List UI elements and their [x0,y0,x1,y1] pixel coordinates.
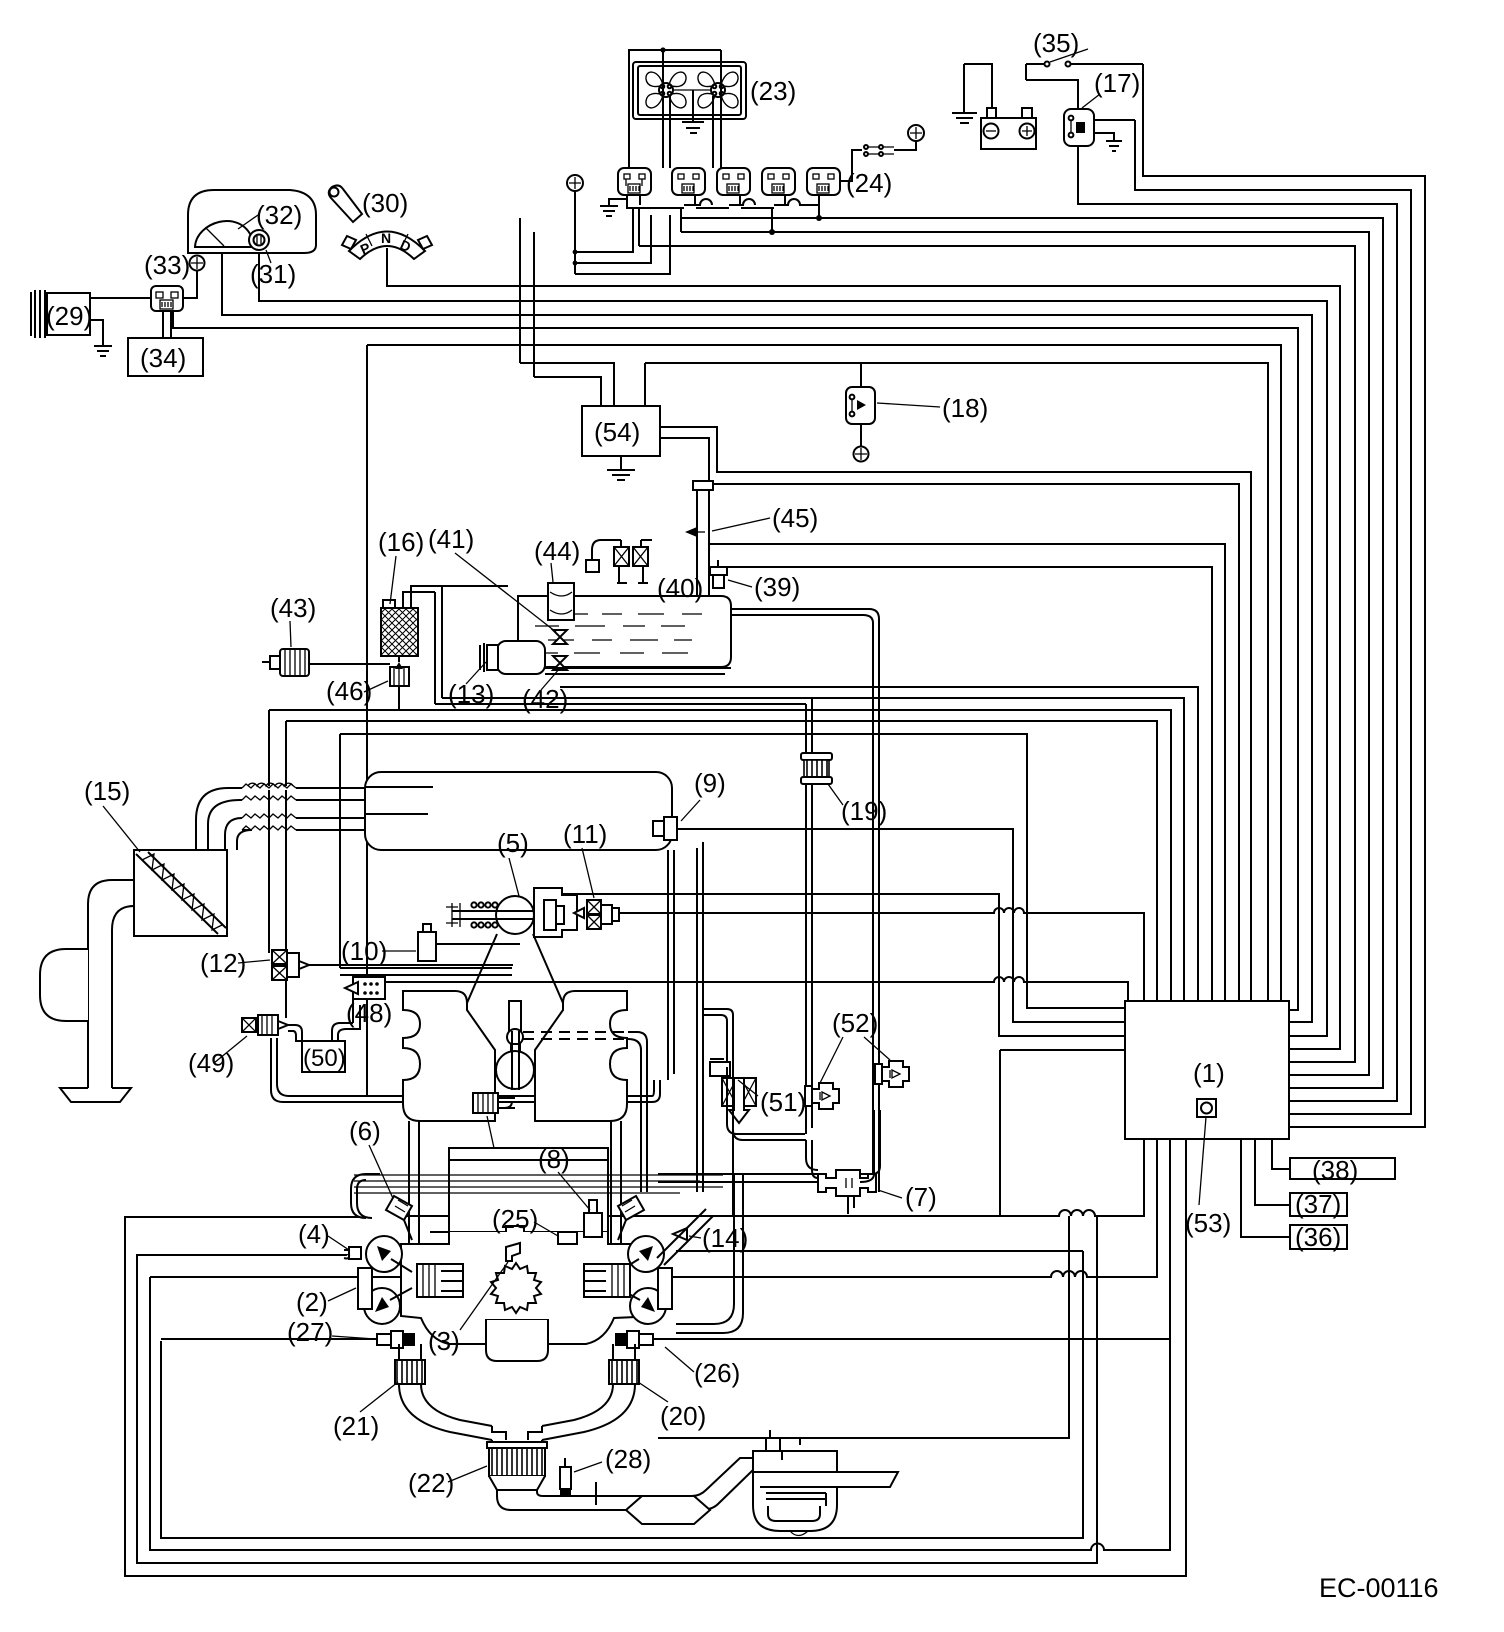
flex joint (21) [395,1360,425,1384]
leader (31) [266,250,271,263]
combination meter (32) [188,190,316,253]
wire fuse to plus [894,141,916,150]
PCV pipe center [507,1001,523,1056]
speedometer dial [195,221,252,247]
intake runner pipes [409,1121,621,1264]
leader (44) [551,563,553,582]
fuel tank [518,596,731,667]
svg-text:(50): (50) [303,1045,346,1072]
svg-text:(22): (22) [408,1468,454,1498]
svg-text:(11): (11) [563,819,607,849]
hoses around (7) [727,1061,818,1178]
check valve (49) [242,1015,288,1035]
right downpipe [613,1344,635,1360]
svg-text:(35): (35) [1033,28,1079,58]
wire canister valve bus a [269,710,1171,1001]
ECU control unit (1) [1125,1001,1289,1139]
PCV hose left loop [351,1174,380,1218]
fuel hose tank to engine right [731,609,879,1192]
battery plus symbol left of relays [567,175,583,191]
wire L10 from unit (33) [173,311,1298,1010]
leader (32) [238,215,258,229]
solenoid valve (52) A [805,1083,839,1109]
return springs [471,902,497,927]
leader (17) [1082,94,1100,108]
module (54) [582,406,660,456]
box (38) [1290,1158,1395,1179]
wire (12) to throttle [309,964,513,966]
leader (25) [534,1222,558,1236]
fuel pump outlet hose [545,668,731,674]
box (34) [128,338,203,376]
wire (54) branch 1 to ECU [660,427,1251,1001]
rocker cover rect [449,1148,608,1232]
wire (34) to (33) [163,311,171,338]
leader (45) [712,518,770,531]
wire coil harness wavy line to ECU bottom [150,1139,1157,1277]
manifold right plenum [535,991,627,1121]
corrugation lower duct [242,814,296,830]
relay R2 [672,168,705,195]
idle air valve (11) [574,900,619,929]
svg-text:(36): (36) [1295,1222,1341,1252]
pipe below filter to engine [806,784,812,1134]
throttle position sensor housing [534,888,577,937]
svg-text:(19): (19) [841,796,887,826]
svg-text:(34): (34) [140,343,186,373]
leader (41) [455,553,556,632]
svg-text:N: N [381,230,391,246]
sensor (25) [558,1232,577,1244]
wire switch branch to coil [1026,64,1078,109]
leader (26) [665,1347,694,1372]
wire vertical x999 from TPS to ECU left [561,894,1125,1036]
svg-text:(41): (41) [428,524,474,554]
purge pipe down to filter (19) [806,698,812,753]
svg-text:(30): (30) [362,188,408,218]
pipe below (51) [732,1126,734,1216]
leader (43) [290,621,291,647]
wire L9 from meter (32) [222,248,1312,1022]
block outline [401,1232,658,1344]
fuel rail lines [354,1175,723,1193]
wire relay drop to L6 [639,208,681,246]
wire coil ground [1094,133,1114,141]
wire knock sensor (27) line [161,1338,377,1340]
EGR pipe arrow (14) [673,1228,687,1240]
wire from sensor (39) to ECU [724,567,1212,1001]
relay bus under relays with hops [627,195,819,208]
leader (6) [369,1145,396,1205]
hose (7) left to engine [658,1174,818,1182]
svg-text:(21): (21) [333,1411,379,1441]
hose (49) big loop under manifold [271,1038,660,1102]
plus symbol at (33) [190,256,205,271]
left downpipe [399,1344,421,1360]
fast idle unit (10) [340,924,520,975]
svg-text:(31): (31) [250,259,296,289]
wire (54) branch 2 to ECU [660,438,1239,1001]
wire fuel pump (13) to ECU [545,698,1184,1001]
corrugation upper duct [242,784,296,800]
wire ECU to connector (36) [1241,1139,1290,1237]
vacuum tank (50) [302,1041,345,1072]
muffler assembly [626,1430,898,1536]
wire loop 3 to (4) terminal [137,1216,1097,1563]
wire (29) ground [90,320,112,356]
resonator chamber [40,949,88,1021]
relay R1 [618,168,651,195]
svg-text:(27): (27) [287,1317,333,1347]
ground at relay R1 [600,195,627,216]
EGR pipe to (14) [676,1174,743,1333]
fan wires overlay [663,55,721,168]
wire loop 4 to knock sensor (27) [161,1251,1083,1538]
svg-text:(51): (51) [760,1087,806,1117]
hose (9) right [703,1009,733,1067]
catalytic converter (22) [487,1442,547,1490]
wire coil to L2 [1094,119,1135,121]
wire (43) to (46) [309,664,399,710]
rollover valves (40) [586,540,652,583]
leader (14) [689,1236,701,1238]
wire crank angle line [658,1216,1069,1438]
svg-text:(25): (25) [492,1204,538,1234]
wire (18) to line B [860,363,862,387]
wire loop 2 knock sensor (26) line [150,1139,1170,1550]
bracket right [658,1268,672,1309]
diagonal EGR pipe [657,1209,713,1265]
svg-text:(14): (14) [702,1223,748,1253]
wire right coil to loop [676,1250,1083,1252]
plug terminal (4) [344,1247,361,1259]
wire cam sensor wavy line to ECU bottom [404,1139,1144,1216]
wire (46) bus down [269,710,286,1018]
wire knock sensor (26) to ECU loop [653,1338,1170,1340]
svg-text:(16): (16) [378,527,424,557]
knock sensor (27) [377,1331,415,1348]
knock sensor (26) [615,1331,653,1348]
ground below (54) [607,456,635,480]
leader (12) [238,960,270,963]
wire relay drop to L4 [818,195,820,218]
wire fan motor leads [670,50,721,168]
selector indicator (30) [329,185,432,259]
wire feeds above (54) [520,218,601,406]
svg-text:(7): (7) [905,1182,937,1212]
wire battery minus to ground [964,64,992,113]
coil bracket (2) [358,1268,372,1309]
leader (7) [878,1190,902,1198]
svg-text:(9): (9) [694,768,726,798]
leader (39) [728,580,752,587]
cylinder right [584,1264,630,1297]
sprocket pointer [506,1243,520,1261]
mount feet [506,1226,524,1236]
wire from valve (11) with harness hops [619,908,1144,1001]
oil pan [486,1320,548,1361]
injector right [618,1196,644,1220]
wire canister valve bus b [286,721,1157,1001]
svg-text:(17): (17) [1094,68,1140,98]
filter (19) [801,753,832,784]
leader (20) [638,1382,668,1402]
wire ground loop outermost [125,1139,1186,1576]
leader (51) [738,1080,758,1096]
svg-text:(18): (18) [942,393,988,423]
svg-text:(10): (10) [341,936,387,966]
wire L6 relay bus 3 [639,246,1355,1062]
dashed vacuum line [523,1032,628,1039]
injector left [386,1196,412,1220]
leader (3) [460,1262,508,1330]
Y merge pipes [399,1384,492,1440]
svg-text:(43): (43) [270,593,316,623]
relay (18) [846,387,875,424]
relay R4 [762,168,795,195]
relay R5 [807,168,840,195]
pressure control pipe (45) [685,481,713,596]
wire L3 ignition coil primary [1078,146,1397,1101]
svg-text:(26): (26) [694,1358,740,1388]
connector (9) [653,817,677,840]
fuse connector right of relay row [864,145,894,156]
wire from valve (48) with harness hops [385,977,1128,1001]
sensor (39) [710,560,727,588]
wire x340 drop [339,734,341,968]
manifold left plenum [403,991,495,1121]
leader (22) [448,1466,487,1482]
wire ECU to connector (37) [1255,1139,1290,1205]
ground below fans [682,90,704,133]
wire L5 relay bus 2 [681,232,1369,1075]
solenoid (46) [390,656,409,686]
plus symbol below (18) [854,447,869,462]
svg-text:(38): (38) [1312,1155,1358,1185]
intake bell mouth [60,1088,131,1102]
svg-text:(32): (32) [256,200,302,230]
tail pipe [497,1458,753,1510]
wire switch right to L1 [1071,63,1143,65]
box (37) [1290,1193,1347,1216]
svg-text:(53): (53) [1185,1208,1231,1238]
throttle to plenum neck [467,934,563,1003]
ignition switch (35) [1045,49,1089,67]
fuel level dashes [535,614,702,653]
harness crossing marks y784 left [248,783,293,786]
connector (53) [1197,1099,1216,1205]
svg-text:(6): (6) [349,1116,381,1146]
wire L11 long loop A [367,345,1281,1001]
cylinder left [417,1264,463,1297]
svg-text:EC-00116: EC-00116 [1319,1573,1439,1603]
leader (21) [360,1382,398,1412]
pipe hanger [595,1482,597,1505]
leader (11) [582,848,594,898]
wire L8 from warning lamp (31) [259,251,1327,1036]
check valves (42) [553,630,567,670]
wire ECU left 4th [1000,1050,1125,1216]
O2 sensor (28) [560,1458,571,1497]
svg-text:(39): (39) [754,572,800,602]
warning lamp (31) [249,230,269,250]
leader (42) [541,668,560,690]
fuel damper (47) [473,1093,515,1113]
wire switch to battery [1026,63,1044,65]
leader (8) [558,1172,590,1210]
wire from sensor (45) to ECU [709,544,1225,1001]
cam sprocket (3) [491,1263,541,1313]
leader (27) [332,1336,375,1339]
svg-text:(15): (15) [84,776,130,806]
wire L4 relay bus 1 [681,218,1383,1088]
hose to right down [628,1032,647,1192]
idle-up motor (43) [262,649,309,676]
sensor (8) [584,1200,602,1237]
fuel pump (13) [480,641,545,674]
solenoid valve (52) B [875,1061,909,1087]
air chamber [365,772,672,850]
svg-text:(2): (2) [296,1287,328,1317]
svg-text:(5): (5) [497,828,529,858]
hose (7) bottom [848,1196,854,1214]
svg-text:(20): (20) [660,1401,706,1431]
svg-text:(28): (28) [605,1444,651,1474]
wire L12 long loop B via relay (18) [520,363,1268,1001]
wire L1 main relay feed from switch (35) [1143,64,1425,1127]
throttle body (5) [496,896,534,934]
ignition coil LT (4 circles with plugs) [366,1236,412,1272]
vacuum valve (48) [345,977,385,999]
purge valve (12) [272,950,309,980]
chamber pipes down right [668,842,703,1192]
wire relay drop to L5 [771,208,773,232]
leader (19) [828,784,843,805]
wire vertical x1013 to ECU left [677,829,1125,1022]
leader (4) [328,1236,349,1250]
leader (49) [214,1036,247,1063]
purge pipe from canister up-right [403,586,812,704]
fuel pump bracket (44) [548,583,574,620]
svg-text:(45): (45) [772,503,818,533]
wire relay R5 to fuse [840,150,862,181]
leader (10) [382,950,416,952]
svg-text:(3): (3) [428,1326,460,1356]
snorkel to resonator [88,880,134,1088]
svg-text:(37): (37) [1295,1189,1341,1219]
oil filler [496,1051,534,1089]
hose (49) to (50) [288,1025,302,1050]
leader (13) [466,662,486,684]
svg-text:(33): (33) [144,250,190,280]
relay R3 [717,168,750,195]
leader (5) [509,858,519,896]
leader (9) [681,800,700,821]
ignition coil (17) [1064,109,1094,146]
leader (18) [877,403,940,407]
wire fuel pump relay to ECU [560,687,1198,1001]
throttle shaft [452,911,533,919]
intake duct lower [225,818,365,850]
leader (47) [487,1116,494,1148]
svg-text:(29): (29) [46,301,92,331]
canister (16) [381,608,418,656]
leader (46) [364,681,388,692]
battery [981,108,1036,149]
wire (29) to (33) [90,297,151,299]
radiator fan assembly (23) [633,62,746,119]
leader (2) [328,1288,356,1301]
wire L7 from inhibitor switch (30) [387,248,1340,1049]
leader (15) [103,806,140,852]
leader (28) [574,1462,602,1472]
svg-text:(44): (44) [534,536,580,566]
wire (33) to plus [183,271,197,298]
intake duct upper [196,788,365,850]
air cleaner (15) [134,850,227,936]
svg-text:(4): (4) [298,1219,330,1249]
box (36) [1290,1225,1347,1249]
EGR valve (7) [818,1170,876,1196]
wire from plus down and right [575,191,670,274]
svg-text:(8): (8) [538,1144,570,1174]
speaker/amp (29) [31,290,92,338]
wire L11 left vertical down [366,345,368,1096]
wire L2 ignition coil signal [1135,120,1411,1114]
flex joint (20) [609,1360,639,1384]
ground symbol battery [952,113,977,123]
ground symbol coil [1106,141,1122,151]
svg-text:(54): (54) [594,417,640,447]
leader (16) [390,556,396,604]
svg-text:(1): (1) [1193,1058,1225,1088]
wire (18) to plus [860,424,862,447]
EGR solenoid (51) [710,1059,756,1123]
wire vertical x1027 to ECU left [340,734,1125,1008]
wire fan feed top [629,50,721,168]
wire ECU to resistor (38) [1272,1139,1290,1169]
leaders (52) [820,1037,890,1083]
svg-text:(23): (23) [750,76,796,106]
hose (50) to (48) [332,999,367,1041]
unit (33) [151,286,183,311]
battery plus symbol right [908,125,924,141]
svg-text:(52): (52) [832,1008,878,1038]
